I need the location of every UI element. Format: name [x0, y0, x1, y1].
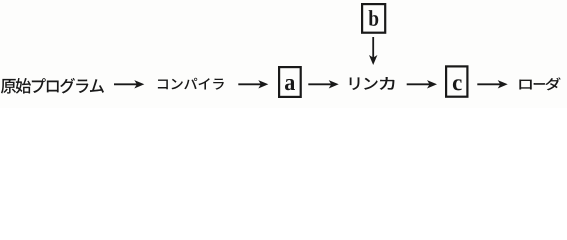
text リンカ (linker): [350, 77, 395, 90]
arrow: box c to loader: [477, 80, 507, 88]
text 原始プログラム (source program): [1, 78, 104, 94]
arrow: box b down to linker: [369, 37, 377, 65]
arrow: linker to box c: [407, 80, 437, 88]
text コンパイラ (compiler): [158, 78, 224, 90]
arrow: box a to linker: [308, 80, 338, 88]
arrow: compiler to box a: [238, 80, 268, 88]
box c: [446, 66, 467, 96]
arrow: source program to compiler: [114, 80, 144, 88]
box b: [362, 4, 385, 33]
text ローダ (loader): [519, 77, 560, 90]
box a: [279, 67, 301, 97]
